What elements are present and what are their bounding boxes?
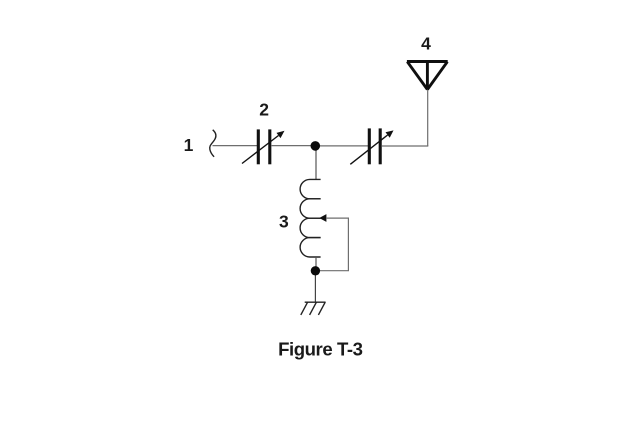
wire input break squiggle (210, 130, 216, 157)
wire C2 to riser corner (381, 145, 428, 147)
inductor L1 (4 turns, tapped) (300, 179, 321, 257)
svg-text:1: 1 (184, 135, 194, 155)
bottom node dot (311, 266, 320, 275)
node junction dot (311, 141, 321, 151)
ground symbol (301, 302, 326, 315)
wire node to coil (315, 146, 317, 179)
tap arrow on coil (319, 214, 326, 222)
wire antenna feed riser (427, 88, 429, 146)
capacitor C2 (variable) plates (369, 128, 380, 164)
capacitor C1 (variable) plates (258, 129, 270, 164)
antenna symbol (407, 62, 448, 90)
svg-text:2: 2 (259, 99, 269, 119)
wire node to ground (314, 271, 316, 302)
tap return wire (317, 218, 348, 271)
wire node to C2 (315, 145, 368, 147)
capacitor C1 arrow (242, 136, 279, 164)
wire C1 to node (271, 145, 315, 147)
svg-text:4: 4 (421, 34, 431, 54)
wire input to C1 (213, 145, 258, 147)
wire coil bottom to node (315, 257, 317, 268)
capacitor C2 arrow (350, 135, 387, 164)
svg-text:Figure T-3: Figure T-3 (278, 339, 362, 360)
svg-text:3: 3 (279, 212, 289, 232)
